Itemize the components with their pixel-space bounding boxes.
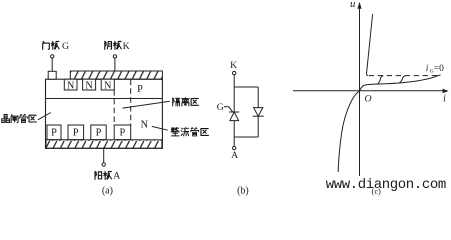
svg-text:P: P [137, 84, 143, 95]
svg-text:P: P [120, 128, 126, 139]
svg-text:K: K [230, 60, 237, 71]
svg-text:P: P [73, 128, 79, 139]
svg-text:A: A [113, 170, 120, 181]
svg-text:(a): (a) [102, 185, 113, 196]
svg-text:P: P [51, 128, 57, 139]
svg-text:(c): (c) [372, 187, 382, 196]
svg-text:i: i [443, 93, 446, 104]
svg-text:O: O [365, 93, 372, 104]
svg-text:u: u [350, 0, 356, 10]
svg-text:N: N [85, 80, 93, 91]
svg-text:G: G [62, 41, 69, 52]
svg-text:N: N [104, 80, 112, 91]
svg-text:P: P [96, 128, 102, 139]
svg-text:(b): (b) [237, 185, 249, 196]
svg-text:A: A [231, 150, 238, 161]
svg-text:N: N [141, 120, 149, 131]
svg-text:G: G [217, 102, 224, 113]
svg-text:www.diangon.com: www.diangon.com [326, 177, 446, 193]
svg-text:N: N [67, 80, 75, 91]
svg-text:i: i [426, 64, 429, 74]
svg-text:=0: =0 [434, 64, 444, 74]
svg-text:K: K [123, 41, 130, 52]
